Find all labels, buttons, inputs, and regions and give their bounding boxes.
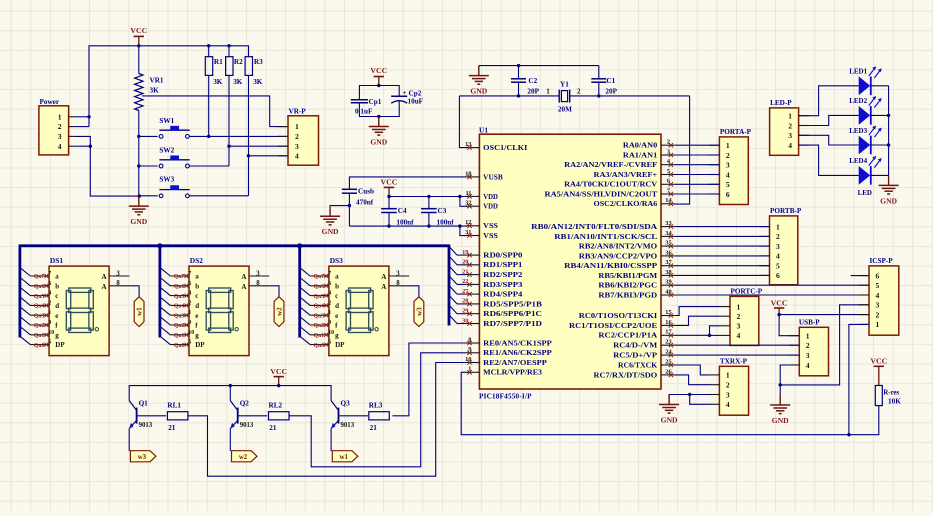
svg-text:w2: w2 [239,454,248,461]
svg-text:PORTC-P: PORTC-P [731,288,763,296]
svg-text:2: 2 [48,300,51,306]
svg-text:1: 1 [58,112,62,121]
svg-text:RD1/SPP1: RD1/SPP1 [483,261,523,269]
junction Cp top [377,84,380,87]
U1 pin 24 RC5/D+/VP [613,349,675,360]
svg-text:e: e [195,312,198,320]
wire R3 branch to VR-P pin4 [249,155,289,157]
svg-text:U1: U1 [479,126,488,135]
svg-text:Qa2: Qa2 [174,323,185,329]
svg-text:Qa6: Qa6 [174,284,185,290]
connector TXRX-P [709,358,749,416]
svg-text:Qa4: Qa4 [314,304,325,310]
junction Cusb gnd tap [348,204,351,207]
svg-text:2: 2 [788,121,792,130]
svg-text:16: 16 [665,319,672,326]
svg-text:a: a [55,273,59,281]
capacitor C2 20P [511,77,540,96]
svg-text:4: 4 [328,291,331,297]
ground GND (TXRX) [659,395,679,425]
svg-text:3: 3 [726,161,730,170]
U1 pin 19 RD0/SPP0 [462,249,523,260]
bus vertical DS3 [298,246,301,338]
svg-text:4: 4 [737,331,741,340]
wire VUSB to Cusb [349,177,467,189]
wire RC5 to USB-P pin3 [675,354,799,356]
wires RA0-RA5 to PORTA-P [675,145,720,194]
power port VCC (R-res) [870,357,887,386]
svg-text:18: 18 [465,170,471,177]
svg-text:C2: C2 [528,77,537,85]
svg-text:3: 3 [776,242,780,251]
svg-text:Qa1: Qa1 [34,333,45,339]
junction LED3 cathode [887,143,890,146]
capacitor C1 20P [591,77,617,96]
svg-text:RC2/CCP1/P1A: RC2/CCP1/P1A [598,332,658,340]
7-segment display DS1 [49,256,129,356]
switch SW3 [159,175,189,197]
ground GND (USB) [770,385,790,425]
svg-text:b: b [335,282,339,290]
svg-text:LED2: LED2 [849,97,867,105]
svg-text:2: 2 [295,132,299,141]
U1 pin 11 VDD [465,190,497,201]
svg-text:2: 2 [58,122,62,131]
svg-text:1: 1 [48,310,51,316]
wire Cusb to GND [330,205,349,208]
svg-text:38: 38 [665,269,671,276]
LED4 [849,156,882,185]
svg-text:d: d [195,302,199,310]
svg-text:5: 5 [48,340,51,346]
svg-text:4: 4 [188,291,191,297]
svg-text:Qa6: Qa6 [314,284,325,290]
svg-text:DS2: DS2 [190,256,203,265]
svg-text:SW2: SW2 [159,146,174,154]
port w3 (digit select, DS3) [414,297,424,327]
svg-text:10: 10 [188,330,194,336]
resistor R3 3K [245,46,263,196]
U1 pin 31 VSS [465,229,498,240]
wire DS2 anode to port w2 [269,286,279,297]
svg-text:2: 2 [806,341,810,350]
svg-text:35: 35 [665,240,671,247]
svg-text:5: 5 [667,168,670,175]
crystal Y1 20M [459,81,689,114]
svg-text:4: 4 [48,291,51,297]
svg-text:12: 12 [465,219,471,226]
junction Power pin4 [89,145,92,148]
wire VR1 wiper to VR-P pin1 [142,96,288,127]
svg-text:Qa3: Qa3 [34,313,45,319]
svg-text:Qa6: Qa6 [34,284,45,290]
bus vertical U1 RD pins [448,246,451,326]
svg-text:RA1/AN1: RA1/AN1 [623,151,658,159]
svg-text:RB1/AN10/INT1/SCK/SCL: RB1/AN10/INT1/SCK/SCL [554,233,657,241]
svg-text:A: A [102,273,107,281]
svg-text:SW1: SW1 [159,117,174,125]
U1 pin 27 RD4/SPP4 [462,288,523,299]
svg-text:GND: GND [661,416,678,425]
wire MCLR to bottom rail [461,372,879,434]
junction SW1 left [137,135,140,138]
svg-text:c: c [55,292,58,300]
power port VCC (drivers) [270,367,287,386]
svg-text:6: 6 [726,190,730,199]
svg-text:24: 24 [665,349,672,356]
svg-text:9013: 9013 [240,422,254,429]
svg-text:RA4/T0CKI/C1OUT/RCV: RA4/T0CKI/C1OUT/RCV [564,181,658,189]
svg-text:1: 1 [726,371,730,380]
svg-text:VUSB: VUSB [483,173,503,181]
svg-text:OSC1/CLKI: OSC1/CLKI [483,144,527,152]
switch SW1 [159,117,189,139]
svg-text:100nf: 100nf [396,218,414,226]
switch SW2 [159,146,189,168]
op-amp U1 PIC18F4550 body [479,126,661,401]
svg-text:1: 1 [546,87,550,95]
junction C2 bottom [517,94,520,97]
svg-text:1: 1 [806,332,810,341]
port w1 (Q3 emitter) [332,451,358,462]
svg-text:RA0/AN0: RA0/AN0 [623,142,658,150]
U1 pin 30 RD7/SPP7/P1D [462,317,542,328]
ground GND (LEDs) [879,175,899,205]
svg-text:w3: w3 [138,454,147,461]
label LED part type [858,189,872,197]
svg-text:RB5/KBI1/PGM: RB5/KBI1/PGM [598,272,657,280]
wire SW2 left [139,165,158,167]
wire SW1 left to VR1 column [139,135,158,137]
junction C2 top [517,64,520,67]
svg-text:17: 17 [665,329,672,336]
svg-text:RE1/AN6/CK2SPP: RE1/AN6/CK2SPP [483,349,552,357]
svg-text:RC1/T1OSI/CCP2/UOE: RC1/T1OSI/CCP2/UOE [569,322,657,330]
junction USB GND [779,383,782,386]
svg-text:VCC: VCC [130,26,147,35]
svg-text:Qa3: Qa3 [174,313,185,319]
U1 pin 15 RC0/T1OSO/T13CKI [579,309,675,320]
svg-text:e: e [335,312,338,320]
wire DS3 anode to port w3 [409,286,419,297]
svg-text:3K: 3K [253,78,263,86]
svg-text:RL2: RL2 [269,402,283,410]
svg-text:A: A [241,283,246,291]
svg-text:RC5/D+/VP: RC5/D+/VP [613,352,658,360]
power port VCC (VDD) [381,177,398,196]
resistor R-res 10K [875,386,901,406]
U1 pin 26 RC7/RX/DT/SDO [594,368,675,379]
svg-text:RA2/AN2/VREF-/CVREF: RA2/AN2/VREF-/CVREF [564,161,658,169]
svg-text:26: 26 [665,368,672,375]
svg-text:2: 2 [328,300,331,306]
svg-text:37: 37 [665,259,672,266]
svg-text:c: c [335,292,338,300]
svg-text:2: 2 [737,312,741,321]
svg-text:RD3/SPP3: RD3/SPP3 [483,281,523,289]
svg-text:6: 6 [328,281,331,287]
svg-text:3: 3 [667,148,670,155]
svg-text:RB3/AN9/CCP2/VPO: RB3/AN9/CCP2/VPO [579,252,658,260]
svg-text:3: 3 [58,132,62,141]
wires RB0-RB5 to PORTB-P [675,227,770,276]
wire USB-P pin4 to GND / ICSP pin3 [780,305,869,385]
svg-text:2: 2 [577,87,581,95]
svg-text:g: g [55,331,59,339]
wire crystal top rail [479,66,599,79]
7-segment display DS3 [329,256,409,356]
svg-text:RC6/TXCK: RC6/TXCK [618,361,658,369]
transistor Q1 9013 [129,400,166,452]
U1 pin 29 RD6/SPP6/P1C [462,308,542,319]
wire VSS rail [349,226,467,236]
junction LED2 cathode [887,114,890,117]
svg-text:DP: DP [335,341,345,349]
wire VCC to ICSP pin2 [779,314,869,316]
svg-text:b: b [195,282,199,290]
svg-text:RC4/D-/VM: RC4/D-/VM [613,342,657,350]
junction ICSP MCLR [847,433,850,436]
svg-text:3K: 3K [233,78,243,86]
svg-text:VSS: VSS [483,232,498,240]
junction VDD/C4 [387,195,390,198]
svg-text:31: 31 [465,229,471,236]
svg-text:RC0/T1OSO/T13CKI: RC0/T1OSO/T13CKI [579,312,658,320]
svg-text:C1: C1 [606,77,615,85]
U1 pin 5 RA3/AN3/VREF+ [594,168,675,179]
connector VR-P [278,108,319,166]
connector PORTB-P [759,207,802,285]
capacitor Cp2 10uF (polarized) [391,89,423,106]
U1 pin 12 VSS [465,219,498,230]
svg-text:5: 5 [776,262,780,271]
U1 pin 18 VUSB [465,170,503,181]
wire RB6 to ICSP-P pin5 [675,284,869,286]
power port VCC (Cp1/Cp2) [370,66,387,85]
svg-text:3: 3 [295,142,299,151]
svg-text:2: 2 [188,300,191,306]
svg-text:Qa7: Qa7 [174,274,185,280]
svg-text:R-res: R-res [883,389,899,396]
svg-text:20P: 20P [605,87,617,95]
bus horizontal (segment data bus) [19,244,451,247]
svg-text:TXRX-P: TXRX-P [720,358,748,366]
svg-text:6: 6 [876,271,880,280]
svg-text:RA3/AN3/VREF+: RA3/AN3/VREF+ [594,171,658,179]
svg-text:2: 2 [726,151,730,160]
svg-text:RD4/SPP4: RD4/SPP4 [483,291,523,299]
svg-text:C4: C4 [398,207,407,215]
svg-text:RD0/SPP0: RD0/SPP0 [483,252,523,260]
wire OSC2 to U1 pin14 [674,96,690,204]
svg-text:GND: GND [322,227,339,236]
transistor Q3 9013 [331,400,368,452]
svg-text:c: c [195,292,198,300]
svg-text:PORTB-P: PORTB-P [770,207,802,215]
wire SW3 left to GND node [139,195,157,197]
svg-text:9: 9 [188,320,191,326]
svg-text:GND: GND [470,87,487,96]
junction SW2 left [137,164,140,167]
junction VCC rail / VR1 [137,44,140,47]
U1 pin 9 RE1/AN6/CK2SPP [466,346,553,357]
svg-text:1: 1 [876,320,880,329]
junction SW1/R1 [207,135,210,138]
U1 pin 8 RE0/AN5/CK1SPP [466,336,553,347]
svg-text:A: A [381,283,386,291]
LED3 [849,126,882,155]
svg-text:w1: w1 [136,307,144,316]
svg-text:20M: 20M [558,106,572,114]
svg-text:RB0/AN12/INT0/FLT0/SDI/SDA: RB0/AN12/INT0/FLT0/SDI/SDA [531,223,658,231]
bus vertical DS2 [158,246,161,338]
svg-text:2: 2 [876,310,880,319]
svg-text:Qa2: Qa2 [34,323,45,329]
resistor VR1 3K (potentiometer) [135,46,164,196]
svg-text:OSC2/CLKO/RA6: OSC2/CLKO/RA6 [594,200,658,208]
svg-text:VCC: VCC [870,357,887,366]
svg-text:21: 21 [370,424,378,432]
svg-text:5: 5 [328,340,331,346]
connector PORTC-P [720,288,763,346]
U1 pin 38 RB5/KBI1/PGM [598,269,675,280]
svg-text:3: 3 [726,390,730,399]
U1 pin 14 OSC2/CLKO/RA6 [594,197,675,208]
svg-text:36: 36 [665,249,672,256]
bus vertical DS1 [18,246,21,338]
svg-text:d: d [335,302,339,310]
ground GND (crystal) [469,66,489,96]
resistor R2 3K [226,46,243,166]
svg-text:DS3: DS3 [330,256,343,265]
svg-text:VCC: VCC [381,177,398,186]
U1 pin 16 RC1/T1OSI/CCP2/UOE [569,319,675,330]
bus junction DS2 [157,243,162,248]
svg-text:1: 1 [188,310,191,316]
connector USB-P [789,319,829,376]
svg-text:Y1: Y1 [560,81,569,89]
svg-text:3: 3 [788,131,792,140]
svg-text:13: 13 [465,141,471,148]
svg-text:R2: R2 [234,58,243,66]
svg-text:VDD: VDD [483,193,498,201]
svg-text:5: 5 [726,180,730,189]
LED2 [849,96,882,125]
svg-text:15: 15 [665,309,671,316]
svg-text:Qa5: Qa5 [174,294,185,300]
svg-text:3: 3 [806,351,810,360]
svg-text:GND: GND [370,138,387,147]
svg-text:9: 9 [468,346,471,353]
svg-text:RB7/KBI3/PGD: RB7/KBI3/PGD [598,291,657,299]
svg-text:5: 5 [876,281,880,290]
connector PORTA-P [709,128,752,204]
svg-text:+: + [403,89,407,97]
U1 pin 17 RC2/CCP1/P1A [598,329,675,340]
svg-text:g: g [335,331,339,339]
svg-text:g: g [195,331,199,339]
svg-text:10K: 10K [888,398,901,406]
wire SW1 right to VR-P pin2 [189,135,288,137]
svg-text:C3: C3 [438,207,447,215]
svg-text:RC7/RX/DT/SDO: RC7/RX/DT/SDO [594,371,658,379]
svg-text:RB4/AN11/KBI0/CSSPP: RB4/AN11/KBI0/CSSPP [564,262,658,270]
svg-text:10: 10 [465,356,471,363]
svg-text:GND: GND [880,196,897,205]
svg-text:LED4: LED4 [849,157,867,165]
svg-text:Q1: Q1 [139,400,149,408]
svg-text:1: 1 [726,141,730,150]
wire LED-P pin4 to LED4 [799,145,859,175]
resistor RL2 [269,402,290,433]
svg-text:LED1: LED1 [849,68,867,76]
DS1 segment pin wires / bus entries / net labels [21,268,55,349]
U1 pin 39 RB6/KBI2/PGC [598,279,675,290]
svg-text:PORTA-P: PORTA-P [720,128,752,136]
svg-text:LED-P: LED-P [770,99,792,107]
wire RB7 to ICSP-P pin4 [675,294,869,296]
svg-text:33: 33 [665,220,671,227]
junction VCC stub [277,384,280,387]
bus junction DS3 [297,243,302,248]
svg-text:1: 1 [737,302,741,311]
svg-text:VR1: VR1 [150,77,164,85]
svg-text:40: 40 [665,288,671,295]
svg-text:R1: R1 [214,58,223,66]
svg-text:9013: 9013 [341,422,355,429]
junction TXRX GND branch [688,393,691,396]
svg-text:Power: Power [40,98,60,106]
svg-text:DS1: DS1 [50,256,63,265]
connector ICSP-P [859,257,899,335]
wire GND to TXRX-P pins3-4 [669,395,709,405]
svg-text:SW3: SW3 [159,175,174,183]
U1 pin 3 RA1/AN1 [623,148,675,159]
svg-text:21: 21 [168,424,176,432]
U1 pin 21 RD2/SPP2 [462,268,523,279]
wire Power pins 3-4 to GND [76,136,139,196]
svg-text:470nf: 470nf [356,199,374,207]
junction rail R2 [227,44,230,47]
svg-text:6: 6 [776,271,780,280]
svg-text:10uF: 10uF [408,98,424,106]
U1 pin 25 RC6/TXCK [618,358,675,369]
junction RC2 branch [708,334,711,337]
svg-text:w3: w3 [416,307,424,316]
svg-text:LED: LED [858,189,872,197]
svg-text:0.1uF: 0.1uF [355,107,373,115]
wire Power pins 1-2 to VCC [76,117,89,127]
svg-text:RL1: RL1 [167,402,181,410]
transistor Q2 9013 [230,386,267,451]
junction R3 branch [247,154,250,157]
svg-text:14: 14 [665,197,672,204]
svg-text:w1: w1 [340,454,349,461]
svg-text:1: 1 [295,122,299,131]
svg-text:PIC18F4550-I/P: PIC18F4550-I/P [479,393,532,401]
svg-text:Qa4: Qa4 [174,304,185,310]
7-segment display DS2 [189,256,269,356]
svg-text:VSS: VSS [483,222,498,230]
wire RC7 to TXRX-P pin2 [675,375,709,385]
svg-text:VDD: VDD [483,203,498,211]
wire SW2 right to R2 [189,165,229,167]
svg-text:4: 4 [726,400,730,409]
wire VCC rail top-left [89,46,249,127]
svg-text:9: 9 [48,320,51,326]
U1 pin 20 RD1/SPP1 [462,259,523,270]
svg-text:RD7/SPP7/P1D: RD7/SPP7/P1D [483,320,542,328]
